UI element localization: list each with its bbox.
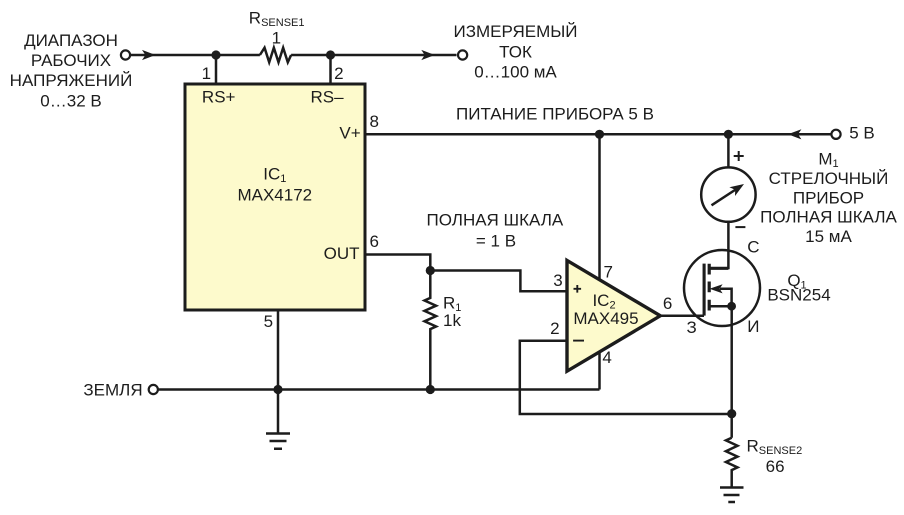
pin number 2 <box>334 64 343 83</box>
svg-text:= 1 В: = 1 В <box>476 232 516 251</box>
resistor R1 <box>425 271 437 390</box>
opamp plus sign <box>574 285 582 293</box>
meter M1 circle <box>701 167 755 221</box>
svg-text:ПИТАНИЕ ПРИБОРА 5 В: ПИТАНИЕ ПРИБОРА 5 В <box>456 105 654 124</box>
svg-text:С: С <box>747 237 759 256</box>
pin number 5 <box>264 312 273 331</box>
svg-text:RS–: RS– <box>310 87 344 106</box>
IC1 MAX4172 box <box>185 84 365 310</box>
svg-text:1: 1 <box>272 29 281 48</box>
label RS- <box>310 87 344 106</box>
svg-text:BSN254: BSN254 <box>767 286 830 305</box>
terminal ground <box>149 385 158 394</box>
junction dot source node <box>727 302 736 311</box>
terminal input left <box>121 50 130 59</box>
meter plus sign <box>734 151 744 161</box>
label Q1 <box>787 271 806 292</box>
wire op-amp pin4 <box>598 352 601 390</box>
wire meter bottom to drain <box>711 222 729 269</box>
svg-text:7: 7 <box>603 262 612 281</box>
pin number 7 opamp <box>603 262 612 281</box>
svg-text:6: 6 <box>369 232 378 251</box>
transistor Q1 source lead <box>709 305 731 308</box>
label supply 5V <box>456 105 654 124</box>
junction dot pin5 ground <box>273 385 282 394</box>
svg-text:2: 2 <box>334 64 343 83</box>
transistor Q1 channel segments <box>708 264 711 311</box>
pin number 8 <box>369 112 378 131</box>
label OUT <box>324 244 360 263</box>
label R1 <box>443 294 461 330</box>
arrow right on output wire <box>421 50 435 60</box>
svg-text:М1: М1 <box>818 150 838 171</box>
label full scale <box>427 211 564 251</box>
ground symbol right <box>720 488 744 503</box>
meter needle <box>712 184 745 205</box>
opamp minus sign <box>573 340 584 342</box>
transistor Q1 gate bar <box>703 264 706 316</box>
svg-text:З: З <box>686 318 696 337</box>
wire ground rail <box>158 388 600 391</box>
svg-text:0…32 В: 0…32 В <box>40 92 101 111</box>
pin number 6 IC1 <box>369 232 378 251</box>
junction dot meter rail <box>724 130 733 139</box>
svg-text:5 В: 5 В <box>849 123 875 142</box>
label 5 V <box>849 123 875 142</box>
label source И <box>747 317 759 336</box>
pin number 1 <box>202 64 211 83</box>
label RS+ <box>202 87 236 106</box>
svg-text:ПОЛНАЯ ШКАЛА: ПОЛНАЯ ШКАЛА <box>760 208 897 227</box>
transistor Q1 circle <box>684 250 760 326</box>
svg-text:ТОК: ТОК <box>499 43 532 62</box>
svg-text:8: 8 <box>369 112 378 131</box>
svg-text:1: 1 <box>202 64 211 83</box>
svg-text:И: И <box>747 317 759 336</box>
label MAX4172 <box>237 186 312 205</box>
op-amp IC2 triangle <box>567 260 660 371</box>
svg-text:2: 2 <box>550 319 559 338</box>
transistor Q1 drain lead <box>709 267 728 270</box>
arrow left on 5V wire <box>788 129 802 139</box>
label input range <box>10 31 133 111</box>
label RSENSE1 <box>249 9 305 48</box>
svg-text:СТРЕЛОЧНЫЙ: СТРЕЛОЧНЫЙ <box>769 169 889 188</box>
label RSENSE2 <box>747 436 803 476</box>
label ground <box>83 380 142 399</box>
pin number 3 opamp <box>553 271 562 290</box>
svg-text:RSENSE2: RSENSE2 <box>747 436 803 457</box>
meter minus sign <box>735 226 745 228</box>
label drain C <box>747 237 759 256</box>
wire IC1 pin5 <box>277 310 280 433</box>
svg-text:3: 3 <box>553 271 562 290</box>
node pin1 wire <box>215 55 218 84</box>
wire op-amp output to gate <box>660 315 704 318</box>
wire op-amp pin7 <box>598 134 601 280</box>
wire source to RSENSE2 <box>730 307 733 438</box>
label gate З <box>686 318 696 337</box>
wire top rail <box>131 54 457 57</box>
node pin2 wire <box>329 55 332 84</box>
label MAX495 <box>573 309 638 328</box>
pin number 2 opamp <box>550 319 559 338</box>
svg-text:OUT: OUT <box>324 244 360 263</box>
svg-text:ЗЕМЛЯ: ЗЕМЛЯ <box>83 380 142 399</box>
svg-text:1k: 1k <box>443 311 461 330</box>
junction dot R1 top <box>426 266 435 275</box>
pin number 4 opamp <box>602 348 611 367</box>
label V+ <box>339 123 360 142</box>
svg-text:ПРИБОР: ПРИБОР <box>793 189 864 208</box>
svg-text:MAX495: MAX495 <box>573 309 638 328</box>
svg-text:ПОЛНАЯ ШКАЛА: ПОЛНАЯ ШКАЛА <box>427 211 564 230</box>
label BSN254 <box>767 286 830 305</box>
svg-text:0…100 мА: 0…100 мА <box>474 63 557 82</box>
svg-text:RSENSE1: RSENSE1 <box>249 9 305 30</box>
ground symbol left <box>266 434 290 449</box>
wire V+ rail <box>366 133 831 136</box>
resistor RSENSE2 <box>726 438 738 488</box>
svg-text:V+: V+ <box>339 123 360 142</box>
wire OUT <box>366 255 430 271</box>
svg-text:15 мА: 15 мА <box>805 227 852 246</box>
label IC1 <box>263 165 286 186</box>
svg-text:НАПРЯЖЕНИЙ: НАПРЯЖЕНИЙ <box>10 71 133 90</box>
svg-text:6: 6 <box>663 294 672 313</box>
wire meter top <box>727 134 730 167</box>
svg-text:66: 66 <box>766 457 785 476</box>
svg-text:ИЗМЕРЯЕМЫЙ: ИЗМЕРЯЕМЫЙ <box>454 22 578 41</box>
junction dot J2 <box>326 50 335 59</box>
label measured current <box>454 22 578 82</box>
junction dot pin7 rail <box>595 130 604 139</box>
svg-text:РАБОЧИХ: РАБОЧИХ <box>31 51 111 70</box>
pin number 6 opamp <box>663 294 672 313</box>
svg-text:ДИАПАЗОН: ДИАПАЗОН <box>24 31 118 50</box>
transistor Q1 body arrow <box>710 284 732 306</box>
junction dot J1 <box>211 50 220 59</box>
terminal 5V <box>831 130 840 139</box>
svg-text:RS+: RS+ <box>202 87 236 106</box>
resistor RSENSE1 <box>260 48 291 63</box>
wire to op-amp plus input <box>430 271 567 292</box>
svg-text:MAX4172: MAX4172 <box>237 186 312 205</box>
label M1 block <box>760 150 897 247</box>
junction dot R1 bottom <box>426 385 435 394</box>
svg-text:5: 5 <box>264 312 273 331</box>
label IC2 <box>592 291 615 312</box>
junction dot source rail <box>727 409 736 418</box>
terminal output right <box>458 50 467 59</box>
wire op-amp minus input <box>520 341 732 414</box>
arrow right on input wire <box>142 50 156 60</box>
svg-text:4: 4 <box>602 348 611 367</box>
